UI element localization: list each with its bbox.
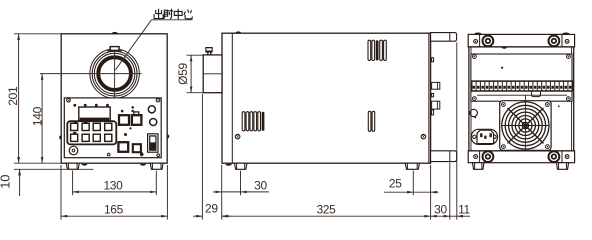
side foot pad (225, 164, 231, 166)
svg-text:130: 130 (103, 178, 123, 192)
panel corner screws (67, 99, 71, 103)
side screws (235, 134, 240, 139)
square button B1 (119, 115, 129, 125)
dim 325 line (222, 215, 431, 217)
dim diam59 extensions (187, 54, 204, 56)
front sight mark (109, 46, 119, 52)
lens crosshair horizontal / 140 extension (40, 73, 142, 75)
square button B2 with tab (134, 112, 139, 115)
rear top bumps (474, 33, 482, 35)
svg-text:30: 30 (434, 202, 447, 216)
dim 29 extensions (201, 94, 203, 220)
connector ring 1 (148, 106, 155, 113)
dim 165 extensions (60, 165, 62, 220)
fan corner screws (502, 103, 506, 107)
rear right foot (557, 163, 569, 170)
keypad bezel (67, 121, 116, 144)
front top bump (112, 32, 118, 34)
side box front seam (231, 33, 233, 163)
svg-text:30: 30 (254, 178, 267, 192)
terminal lower edge (477, 94, 567, 96)
svg-text:29: 29 (205, 202, 218, 216)
svg-text:201: 201 (6, 86, 20, 106)
emission-center label 出射中心 (154, 9, 192, 19)
display window (79, 107, 110, 121)
rear left foot (473, 163, 485, 170)
side vent top group (368, 40, 371, 60)
keypad buttons (71, 123, 78, 130)
AC inlet flange (471, 129, 497, 144)
dim 25 extension (412, 171, 414, 196)
svg-text:10: 10 (0, 175, 13, 189)
side left foot (234, 163, 247, 169)
dim 30R/11 extensions (430, 165, 432, 220)
dim 130 line (73, 191, 157, 193)
svg-text:Ø59: Ø59 (176, 62, 190, 84)
dim extension bottom (box bottom) (14, 162, 61, 164)
svg-text:25: 25 (389, 177, 402, 191)
panel bottom screws (107, 153, 110, 156)
front control panel (64, 98, 161, 158)
lens barrel side (203, 55, 222, 93)
terminal block strip (472, 81, 573, 91)
lens crosshair vertical (114, 48, 116, 99)
fuse holder (470, 109, 477, 116)
rear bumper bottom (side) (431, 151, 457, 162)
dim 140 line (41, 74, 43, 164)
svg-text:11: 11 (458, 202, 470, 216)
rear top bar (468, 34, 574, 47)
side sight mark (205, 47, 212, 53)
dim 165 line (61, 215, 167, 217)
front foot pads (81, 164, 87, 166)
rear bump under bar (501, 47, 507, 49)
front right foot (150, 163, 163, 169)
fan spokes (508, 108, 544, 143)
svg-text:165: 165 (104, 202, 124, 216)
floor line / 10 extension (14, 168, 94, 170)
keypad tabs (74, 121, 78, 123)
emission-center leader (152, 19, 193, 21)
dim diam59 line (190, 55, 192, 92)
terminal plate screws (472, 55, 476, 59)
dim 10 arrow (19, 169, 21, 196)
dim 30L extension (240, 171, 242, 196)
front view enclosure box (61, 34, 167, 163)
rear bottom bar screws (474, 155, 478, 159)
dim 30R arrows (431, 215, 437, 218)
rear bottom bumper feet (483, 151, 494, 162)
lens barrel circles (90, 49, 139, 98)
terminal U hook (532, 91, 541, 97)
side view enclosure box (222, 33, 431, 163)
square button B3 (118, 142, 128, 152)
rear bumper top (side) (431, 33, 457, 42)
rear main panel (469, 47, 574, 151)
terminal plate (471, 54, 572, 101)
square button B4 (133, 144, 141, 152)
rear top bumper feet (483, 36, 494, 47)
barrel centerline (203, 73, 222, 75)
side right foot (405, 163, 419, 169)
dim 11 arrows (450, 215, 457, 217)
side box rear double edge (428, 33, 430, 163)
dim 201 line (18, 34, 20, 163)
side top bump (235, 31, 241, 33)
front left foot (66, 163, 79, 169)
panel small leds (121, 110, 124, 113)
right side bump (167, 134, 169, 138)
display top dots (73, 104, 76, 107)
dim 30L arrows (213, 191, 222, 193)
dim 25 arrows (384, 191, 413, 193)
svg-text:325: 325 (316, 202, 336, 216)
svg-text:140: 140 (30, 106, 44, 126)
dim 130 extensions (72, 171, 74, 196)
fan frame (500, 101, 551, 151)
key ring bottom-left (69, 146, 78, 155)
AC inlet body (477, 130, 494, 143)
fan centerlines (524, 96, 526, 157)
connector ring 2 (150, 118, 157, 125)
side vent small group (368, 111, 371, 131)
rear top bar screws (474, 40, 478, 44)
dim 201 extension top (14, 33, 61, 35)
rear small protrusions (side) (432, 58, 434, 62)
dim 29 arrows (193, 215, 202, 217)
rocker power switch (148, 134, 158, 152)
side vent left group (242, 112, 245, 131)
left side bump (59, 135, 61, 139)
rear bottom bar (468, 151, 574, 163)
fan grill rings (522, 122, 528, 128)
